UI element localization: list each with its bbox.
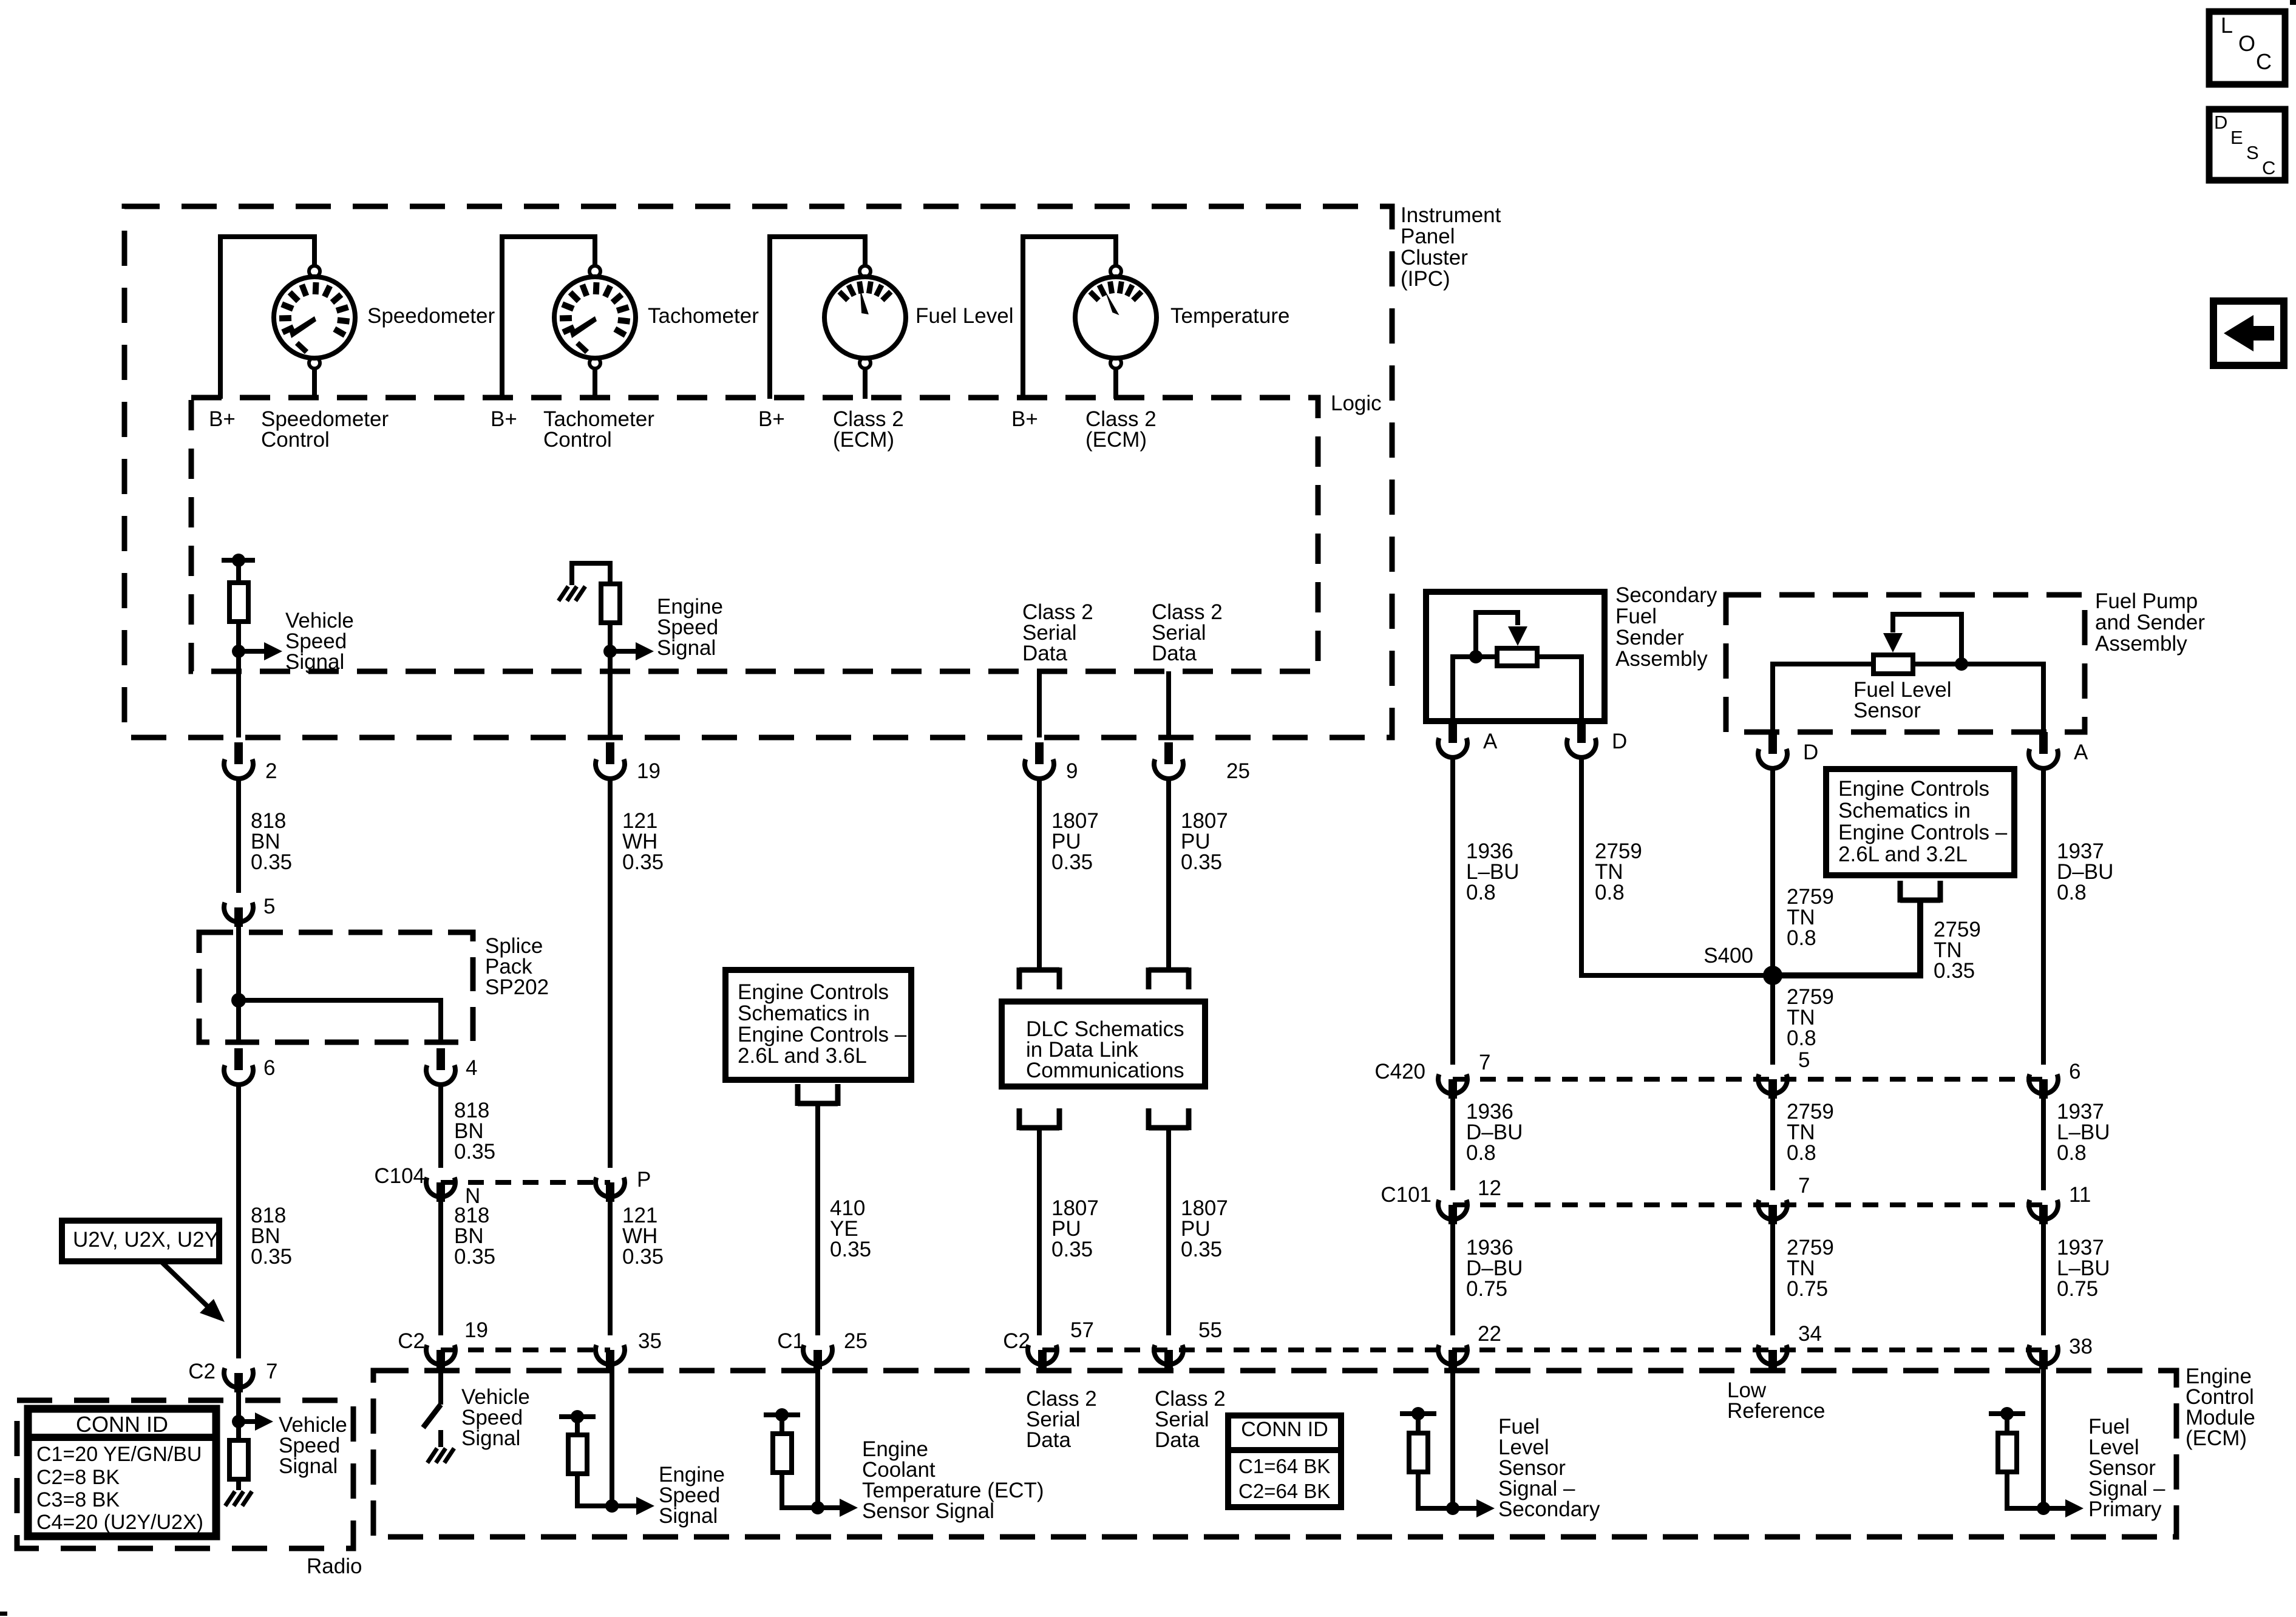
connector C2 ECM dotted line (19-35) xyxy=(441,1347,610,1352)
fuel level gauge M3 xyxy=(860,266,871,277)
svg-text:C1=64 BK: C1=64 BK xyxy=(1238,1455,1330,1477)
ground (engine speed, IPC) xyxy=(572,563,610,585)
svg-text:Cluster: Cluster xyxy=(1401,246,1468,269)
node fuel secondary junction xyxy=(1446,1502,1459,1515)
connector pin 5 xyxy=(224,903,253,922)
resistor R6 fuel level primary (ECM) xyxy=(1989,1411,2025,1416)
svg-text:C3=8 BK: C3=8 BK xyxy=(36,1488,120,1511)
svg-text:Sensor Signal: Sensor Signal xyxy=(862,1499,994,1523)
resistor R5 fuel level secondary (ECM) xyxy=(1400,1411,1436,1416)
svg-text:0.35: 0.35 xyxy=(622,1245,664,1269)
svg-text:0.35: 0.35 xyxy=(1181,850,1222,874)
svg-text:9: 9 xyxy=(1066,759,1078,783)
svg-text:P: P xyxy=(637,1168,651,1192)
wire 121 WH pin19 down to C104 P xyxy=(608,779,613,1168)
svg-text:0.8: 0.8 xyxy=(2057,881,2087,904)
wire 2759 TN (pump D to S400) xyxy=(1770,768,1775,1065)
bracket below 3.6L box xyxy=(798,1101,838,1107)
wire temperature to logic xyxy=(1113,368,1118,399)
connector pin 19 (IPC) xyxy=(596,759,625,779)
CONN ID box (radio) xyxy=(28,1409,216,1536)
wire 1807 PU pin25 down xyxy=(1166,779,1171,970)
connector C420 pin 5 xyxy=(1758,1074,1787,1094)
wire B+ feed to tachometer xyxy=(502,237,595,399)
svg-text:Signal: Signal xyxy=(461,1426,520,1450)
wire 818 BN below C104 xyxy=(438,1202,443,1335)
svg-text:Engine Controls: Engine Controls xyxy=(738,980,889,1004)
connector C104 pin N xyxy=(426,1178,455,1197)
svg-text:Engine Controls: Engine Controls xyxy=(1838,777,1989,801)
node engine speed junction xyxy=(603,645,617,658)
svg-text:Control: Control xyxy=(543,428,612,452)
connector C420 pin 6 xyxy=(2029,1074,2058,1094)
svg-text:Fuel Level: Fuel Level xyxy=(915,304,1013,328)
Instrument Panel Cluster (IPC) box xyxy=(124,206,1392,737)
svg-text:Fuel: Fuel xyxy=(1615,605,1657,628)
svg-text:25: 25 xyxy=(844,1329,868,1353)
svg-text:Sender: Sender xyxy=(1615,626,1684,649)
svg-text:B+: B+ xyxy=(491,407,517,431)
arrow engine speed signal xyxy=(610,649,637,654)
svg-text:CONN ID: CONN ID xyxy=(1241,1418,1328,1441)
svg-text:Control: Control xyxy=(261,428,330,452)
connector C101 pin 12 xyxy=(1438,1200,1467,1219)
arrow ECT sensor signal xyxy=(840,1499,858,1517)
bracket below DLC left xyxy=(1019,1125,1059,1131)
svg-text:Signal: Signal xyxy=(279,1454,338,1478)
svg-text:Primary: Primary xyxy=(2088,1497,2162,1521)
wire 1936 D-BU 0.75 xyxy=(1450,1224,1455,1335)
svg-text:22: 22 xyxy=(1478,1322,1501,1346)
connector pin 34 (ECM) xyxy=(1758,1345,1787,1364)
connector pin 22 (ECM) xyxy=(1438,1345,1467,1364)
wire 1936 L-BU (A to C420 pin7) xyxy=(1450,758,1455,1065)
svg-text:Assembly: Assembly xyxy=(1615,647,1708,671)
svg-text:19: 19 xyxy=(637,759,661,783)
svg-text:D: D xyxy=(1612,730,1627,753)
svg-text:0.8: 0.8 xyxy=(1466,1141,1496,1165)
ground (radio) xyxy=(225,1491,235,1506)
resistor R3 engine speed (ECM) xyxy=(559,1414,596,1419)
svg-text:2: 2 xyxy=(265,759,277,783)
connector C104 dotted line xyxy=(441,1180,610,1185)
wire 1807 PU pin9 down xyxy=(1037,779,1042,970)
svg-text:C: C xyxy=(2262,157,2275,178)
wire B+ feed to fuel level xyxy=(770,237,865,399)
svg-text:SP202: SP202 xyxy=(485,975,549,999)
wire 2759 TN 0.75 xyxy=(1770,1224,1775,1335)
leader arrow U2V xyxy=(161,1261,214,1312)
svg-text:A: A xyxy=(1483,730,1498,753)
svg-text:0.75: 0.75 xyxy=(1787,1277,1828,1301)
svg-text:(ECM): (ECM) xyxy=(833,428,894,452)
node ECT junction xyxy=(811,1501,824,1514)
wire splice left down xyxy=(236,1000,241,1042)
connector C420 dotted line xyxy=(1453,1077,2043,1082)
wire vehicle speed down xyxy=(236,622,241,737)
connector pin D (fuel pump) xyxy=(1758,749,1787,768)
svg-text:Instrument: Instrument xyxy=(1401,203,1501,227)
svg-text:7: 7 xyxy=(266,1360,277,1383)
svg-text:Tachometer: Tachometer xyxy=(648,304,759,328)
wire 1937 L-BU 0.8 xyxy=(2041,1099,2046,1190)
svg-text:7: 7 xyxy=(1479,1051,1490,1074)
svg-text:0.8: 0.8 xyxy=(1595,881,1625,904)
arrow fuel level sensor signal secondary xyxy=(1476,1499,1495,1517)
wire pin 35 down (ECM) xyxy=(610,1369,614,1506)
wire class 2 serial data B xyxy=(1166,671,1171,737)
connector pin 35 (ECM) xyxy=(596,1345,625,1364)
svg-text:(ECM): (ECM) xyxy=(2186,1426,2247,1450)
wire 2759 TN 0.8 (mid) xyxy=(1770,1099,1775,1190)
svg-text:2.6L and 3.6L: 2.6L and 3.6L xyxy=(738,1044,867,1068)
CONN ID box (ECM) xyxy=(1228,1415,1341,1507)
node vehicle speed junction xyxy=(232,645,245,658)
wire 2759 TN (D to S400) xyxy=(1581,758,1773,975)
wire 1937 D-BU (pump A to C420 pin6) xyxy=(2041,768,2046,1065)
wire tachometer to logic xyxy=(593,368,597,399)
wire pin5 to splice pack xyxy=(236,927,241,1000)
wire B+ feed to temperature xyxy=(1023,237,1116,399)
svg-text:B+: B+ xyxy=(209,407,236,431)
svg-text:Secondary: Secondary xyxy=(1498,1497,1600,1521)
svg-text:Engine Controls –: Engine Controls – xyxy=(738,1023,907,1046)
svg-text:Radio: Radio xyxy=(307,1554,362,1578)
wire 121 WH below P xyxy=(608,1202,613,1335)
page corner mark bottom left xyxy=(0,1612,7,1616)
connector pin 38 (ECM) xyxy=(2029,1345,2058,1364)
connector C420 pin 7 xyxy=(1438,1074,1467,1094)
wire B+ feed to speedometer xyxy=(220,237,314,399)
bracket above DLC left xyxy=(1037,779,1042,970)
svg-text:11: 11 xyxy=(2069,1183,2091,1207)
tachometer gauge M2 xyxy=(589,266,600,277)
svg-text:Data: Data xyxy=(1022,642,1067,665)
svg-text:57: 57 xyxy=(1070,1318,1094,1342)
svg-text:Logic: Logic xyxy=(1331,392,1382,415)
svg-text:C1=20 YE/GN/BU: C1=20 YE/GN/BU xyxy=(36,1443,202,1466)
connector pin 19 (ECM) xyxy=(426,1345,455,1364)
svg-text:Communications: Communications xyxy=(1026,1059,1184,1082)
splice pack SP202 box xyxy=(199,932,473,1042)
svg-text:0.75: 0.75 xyxy=(1466,1277,1507,1301)
bracket above DLC right xyxy=(1166,779,1171,970)
svg-text:5: 5 xyxy=(1798,1048,1810,1072)
connector C104 pin P xyxy=(596,1178,625,1197)
svg-text:C2=64 BK: C2=64 BK xyxy=(1238,1480,1330,1502)
svg-text:2.6L and 3.2L: 2.6L and 3.2L xyxy=(1838,842,1968,866)
svg-text:4: 4 xyxy=(466,1056,477,1080)
svg-text:7: 7 xyxy=(1798,1174,1810,1198)
connector pin 25 (ECM) xyxy=(803,1345,832,1364)
svg-text:C420: C420 xyxy=(1374,1060,1425,1083)
arrow fuel level sensor signal primary xyxy=(2065,1499,2084,1517)
svg-text:5: 5 xyxy=(263,895,275,918)
switch vehicle speed (ECM) xyxy=(438,1369,443,1405)
potentiometer secondary fuel sender xyxy=(1497,648,1537,666)
splice S400 xyxy=(1763,966,1782,985)
connector pin 25 (IPC) xyxy=(1154,759,1183,779)
connector pin D (secondary sender) xyxy=(1567,738,1596,758)
svg-text:CONN ID: CONN ID xyxy=(76,1412,168,1437)
wire 1936 D-BU 0.8 xyxy=(1450,1099,1455,1190)
svg-text:0.35: 0.35 xyxy=(1934,959,1975,983)
svg-text:C104: C104 xyxy=(374,1164,425,1188)
wire splice branch xyxy=(239,1000,441,1042)
connector pin A (fuel pump) xyxy=(2029,749,2058,768)
svg-text:0.35: 0.35 xyxy=(622,850,664,874)
bracket below 3.2L box xyxy=(1900,898,1940,903)
connector pin 55 (ECM) xyxy=(1154,1345,1183,1364)
ground (ECM switch) xyxy=(427,1448,437,1463)
svg-text:S: S xyxy=(2246,142,2259,163)
svg-text:O: O xyxy=(2238,31,2255,56)
svg-text:U2V, U2X, U2Y: U2V, U2X, U2Y xyxy=(73,1228,219,1252)
connector C101 pin 11 xyxy=(2029,1200,2058,1219)
connector pin 57 (ECM) xyxy=(1028,1345,1057,1364)
svg-text:6: 6 xyxy=(2069,1060,2080,1083)
wire 818 BN pin4 to C104 xyxy=(438,1085,443,1168)
connector C101 pin 7 xyxy=(1758,1200,1787,1219)
svg-text:Engine Controls –: Engine Controls – xyxy=(1838,821,2008,844)
wire pin 22 down (ECM) xyxy=(1450,1369,1455,1508)
svg-text:C4=20 (U2Y/U2X): C4=20 (U2Y/U2X) xyxy=(36,1511,203,1534)
temperature gauge M4 xyxy=(1110,266,1121,277)
resistor R7 (radio) xyxy=(229,1440,248,1479)
svg-text:0.8: 0.8 xyxy=(1787,1026,1816,1050)
wiper secondary sender xyxy=(1469,650,1483,663)
svg-text:C1: C1 xyxy=(777,1329,804,1353)
wire 818 BN pin2 down xyxy=(236,779,241,893)
svg-text:Signal: Signal xyxy=(659,1504,718,1528)
callout box U2V, U2X, U2Y xyxy=(62,1221,219,1261)
svg-text:Schematics in: Schematics in xyxy=(1838,799,1971,822)
Secondary Fuel Sender Assembly box xyxy=(1426,592,1605,721)
svg-text:Reference: Reference xyxy=(1727,1399,1825,1423)
connector pin 6 xyxy=(224,1065,253,1085)
svg-text:6: 6 xyxy=(263,1056,275,1080)
connector pin 9 (IPC) xyxy=(1025,759,1054,779)
Engine Control Module (ECM) box xyxy=(373,1371,2176,1537)
svg-text:38: 38 xyxy=(2069,1335,2093,1358)
wire 1937 L-BU 0.75 xyxy=(2041,1224,2046,1335)
svg-text:0.8: 0.8 xyxy=(1787,1141,1816,1165)
svg-text:C101: C101 xyxy=(1381,1183,1432,1207)
svg-text:0.35: 0.35 xyxy=(454,1140,495,1164)
node splice junction xyxy=(231,993,246,1008)
resistor R2 engine speed xyxy=(601,584,620,623)
svg-text:0.8: 0.8 xyxy=(1466,881,1496,904)
svg-text:55: 55 xyxy=(1198,1318,1222,1342)
resistor R4 ECT (ECM) xyxy=(764,1412,800,1417)
resistor R1 vehicle speed xyxy=(236,560,241,583)
svg-text:35: 35 xyxy=(638,1329,662,1353)
connector C2 ECM dotted line (57-38) xyxy=(1042,1347,2043,1352)
svg-text:0.8: 0.8 xyxy=(2057,1141,2087,1165)
wire pin 38 down (ECM) xyxy=(2041,1369,2046,1508)
wire 410 YE down xyxy=(815,1103,820,1335)
svg-text:0.75: 0.75 xyxy=(2057,1277,2098,1301)
arrow vehicle speed signal (radio) xyxy=(255,1412,273,1431)
svg-text:Assembly: Assembly xyxy=(2095,632,2187,656)
svg-text:(IPC): (IPC) xyxy=(1401,267,1450,291)
svg-text:Temperature: Temperature xyxy=(1170,304,1289,328)
svg-text:B+: B+ xyxy=(758,407,785,431)
svg-text:(ECM): (ECM) xyxy=(1085,428,1147,452)
connector pin 4 xyxy=(426,1065,455,1085)
svg-text:12: 12 xyxy=(1478,1176,1501,1200)
wire 1807 PU to pin 55 xyxy=(1166,1128,1171,1335)
connector C101 dotted line xyxy=(1453,1202,2043,1207)
vehicle speed signal pull-up bar xyxy=(222,558,255,563)
svg-text:D: D xyxy=(2214,112,2227,133)
svg-text:A: A xyxy=(2074,741,2088,764)
svg-text:Schematics in: Schematics in xyxy=(738,1002,870,1025)
svg-text:Signal: Signal xyxy=(657,636,716,660)
reference box Engine Controls Schematics 2.6L and 3.6L xyxy=(725,970,911,1080)
icon LOC box xyxy=(2209,12,2285,84)
svg-text:0.35: 0.35 xyxy=(1051,850,1093,874)
svg-text:0.8: 0.8 xyxy=(1787,926,1816,950)
page corner mark top right xyxy=(2290,0,2296,5)
svg-text:25: 25 xyxy=(1226,759,1250,783)
svg-text:0.35: 0.35 xyxy=(1181,1238,1222,1261)
connector pin 2 (IPC) xyxy=(224,759,253,779)
wire class 2 serial data A xyxy=(1037,671,1042,737)
svg-text:and Sender: and Sender xyxy=(2095,611,2205,634)
wire radio pin7 down xyxy=(236,1392,241,1440)
reference box DLC Schematics xyxy=(1002,1002,1205,1086)
speedometer gauge M1 xyxy=(309,266,320,277)
connector pin 7 (radio C2) xyxy=(224,1368,253,1388)
svg-text:L: L xyxy=(2221,13,2233,38)
arrow vehicle speed signal xyxy=(239,649,265,654)
Fuel Pump and Sender Assembly box xyxy=(1726,595,2085,732)
svg-text:B+: B+ xyxy=(1011,407,1038,431)
svg-text:Signal: Signal xyxy=(285,650,344,674)
wire 1807 PU to pin 57 xyxy=(1037,1128,1042,1335)
svg-text:0.35: 0.35 xyxy=(251,1245,292,1269)
wire pin 25 down (ECM) xyxy=(815,1369,820,1508)
svg-text:Data: Data xyxy=(1155,1428,1200,1452)
svg-text:0.35: 0.35 xyxy=(454,1245,495,1269)
svg-text:C2=8 BK: C2=8 BK xyxy=(36,1466,120,1489)
svg-text:S400: S400 xyxy=(1703,944,1753,968)
svg-text:C: C xyxy=(2256,49,2272,74)
wire 818 BN pin6 to radio xyxy=(236,1085,241,1358)
svg-text:Data: Data xyxy=(1152,642,1197,665)
svg-text:E: E xyxy=(2230,127,2243,148)
reference box Engine Controls Schematics 2.6L and 3.2L xyxy=(1826,769,2014,875)
Logic box xyxy=(191,398,1318,671)
svg-text:Data: Data xyxy=(1026,1428,1071,1452)
Radio box xyxy=(17,1400,353,1548)
wire fuel level to logic xyxy=(863,368,868,399)
node fuel primary junction xyxy=(2037,1502,2050,1515)
svg-text:34: 34 xyxy=(1798,1322,1822,1346)
icon back arrow box xyxy=(2213,301,2284,365)
svg-text:19: 19 xyxy=(464,1318,488,1342)
wire engine speed down xyxy=(608,623,613,737)
svg-text:0.35: 0.35 xyxy=(251,850,292,874)
wiper fuel level sensor xyxy=(1955,657,1968,671)
bracket below DLC right xyxy=(1149,1125,1189,1131)
svg-text:C2: C2 xyxy=(398,1329,425,1353)
arrow engine speed signal (ECM) xyxy=(636,1497,654,1515)
svg-text:0.35: 0.35 xyxy=(830,1238,871,1261)
svg-text:C2: C2 xyxy=(188,1360,216,1383)
svg-text:D: D xyxy=(1803,741,1818,764)
icon DESC box xyxy=(2209,109,2285,180)
node radio junction xyxy=(232,1415,245,1428)
wire speedometer to logic xyxy=(312,368,317,399)
svg-text:Secondary: Secondary xyxy=(1615,583,1717,607)
potentiometer fuel level sensor xyxy=(1873,655,1913,674)
svg-text:Fuel Pump: Fuel Pump xyxy=(2095,589,2198,613)
connector pin A (secondary sender) xyxy=(1438,738,1467,758)
wire 2759 TN 0.35 xyxy=(1773,900,1920,975)
node engine speed junction (ECM) xyxy=(605,1499,619,1513)
svg-text:Sensor: Sensor xyxy=(1853,699,1921,722)
svg-text:Speedometer: Speedometer xyxy=(367,304,495,328)
svg-text:Panel: Panel xyxy=(1401,225,1455,248)
svg-text:0.35: 0.35 xyxy=(1051,1238,1093,1261)
